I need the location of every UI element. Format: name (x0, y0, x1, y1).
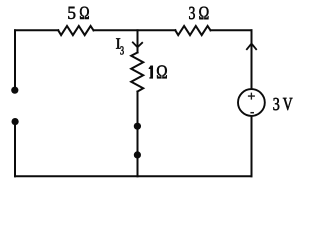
label 1 ohm omega (157, 65, 167, 78)
label 5 ohm omega (80, 7, 89, 19)
label I3 subscript 3 (120, 46, 123, 54)
node dot middle upper (134, 123, 141, 130)
wire top-middle segment (94, 29, 176, 31)
terminal node dot lower-left (12, 118, 19, 125)
resistor R1 5ohm zigzag (58, 26, 93, 35)
label 1 ohm digit (149, 66, 153, 79)
wire right branch upper (251, 30, 253, 88)
wire right branch lower (251, 117, 253, 177)
label 3 V letter V (283, 98, 293, 110)
voltage source minus sign (250, 112, 254, 114)
wire bottom (15, 175, 252, 177)
voltage source plus sign (248, 93, 255, 100)
resistor R2 3ohm zigzag (175, 26, 210, 35)
label 3 ohm omega (199, 7, 208, 20)
wire middle branch upper (137, 30, 139, 52)
wire middle branch lower (137, 92, 139, 177)
resistor R3 1ohm zigzag (131, 53, 143, 92)
wire left vertical lower (14, 122, 16, 177)
source current arrow head (up) (246, 44, 256, 50)
node dot middle lower (134, 151, 141, 158)
wire left vertical upper (14, 30, 16, 89)
label 3 ohm digit (189, 7, 195, 19)
wire top-left segment (15, 29, 58, 31)
terminal node dot upper-left (11, 87, 18, 94)
voltage source V1 circle (238, 89, 265, 116)
label 5 ohm digit (68, 7, 75, 19)
label I3 letter I (116, 38, 120, 48)
wire top-right segment (211, 29, 252, 31)
current arrow I3 head (down) (132, 42, 143, 47)
label 3 V digit (273, 98, 279, 110)
